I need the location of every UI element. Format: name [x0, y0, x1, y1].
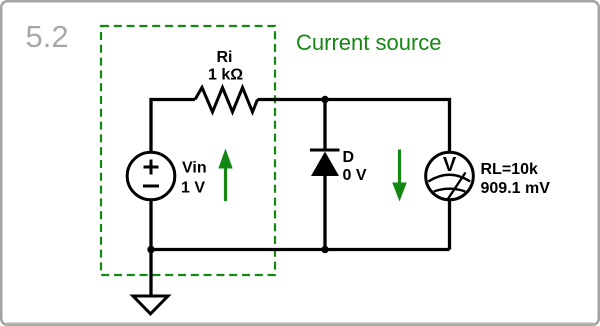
node junction bottom middle — [321, 246, 328, 253]
voltage source Vin circle — [127, 152, 175, 200]
diode D cathode bar — [310, 149, 340, 152]
frame bottom edge — [6, 322, 594, 325]
current arrow down (green) — [398, 150, 401, 185]
wire: resistor to voltmeter top — [258, 100, 450, 153]
diode D triangle — [311, 152, 339, 177]
resistor R1 zigzag — [195, 88, 258, 113]
svg-text:909.1 mV: 909.1 mV — [481, 180, 551, 197]
voltmeter scale arc upper — [428, 175, 470, 182]
svg-text:V: V — [443, 154, 457, 176]
wire: Vin bottom to bottom rail — [149, 201, 152, 250]
svg-text:0 V: 0 V — [343, 167, 367, 184]
wire: bottom rail — [151, 248, 450, 251]
Vin plus sign — [144, 166, 159, 169]
svg-text:Vin: Vin — [182, 160, 207, 177]
Vin minus sign — [143, 185, 159, 188]
current source boundary box (green dashed) — [101, 26, 275, 275]
svg-text:Ri: Ri — [217, 49, 233, 66]
voltmeter scale arc lower — [434, 189, 466, 192]
voltmeter U1 circle — [426, 152, 474, 200]
node junction bottom left — [147, 246, 154, 253]
wire: voltmeter bottom to rail — [448, 201, 451, 250]
wire: top node down to diode cathode — [323, 100, 326, 151]
svg-text:1 V: 1 V — [181, 180, 205, 197]
voltmeter needle — [448, 173, 466, 200]
svg-text:D: D — [343, 149, 355, 166]
svg-text:RL=10k: RL=10k — [481, 161, 538, 178]
wire: ground stem — [149, 250, 152, 296]
wire: Vin top to resistor (left vertical + horizontal) — [151, 100, 195, 153]
node junction top (diode tap) — [321, 96, 328, 103]
current arrow up (green) — [224, 166, 227, 201]
wire: diode anode down to bottom rail — [323, 176, 326, 250]
svg-text:1 kΩ: 1 kΩ — [208, 67, 243, 84]
svg-text:Current source: Current source — [296, 30, 442, 55]
ground symbol — [133, 296, 168, 314]
svg-text:5.2: 5.2 — [26, 19, 69, 54]
